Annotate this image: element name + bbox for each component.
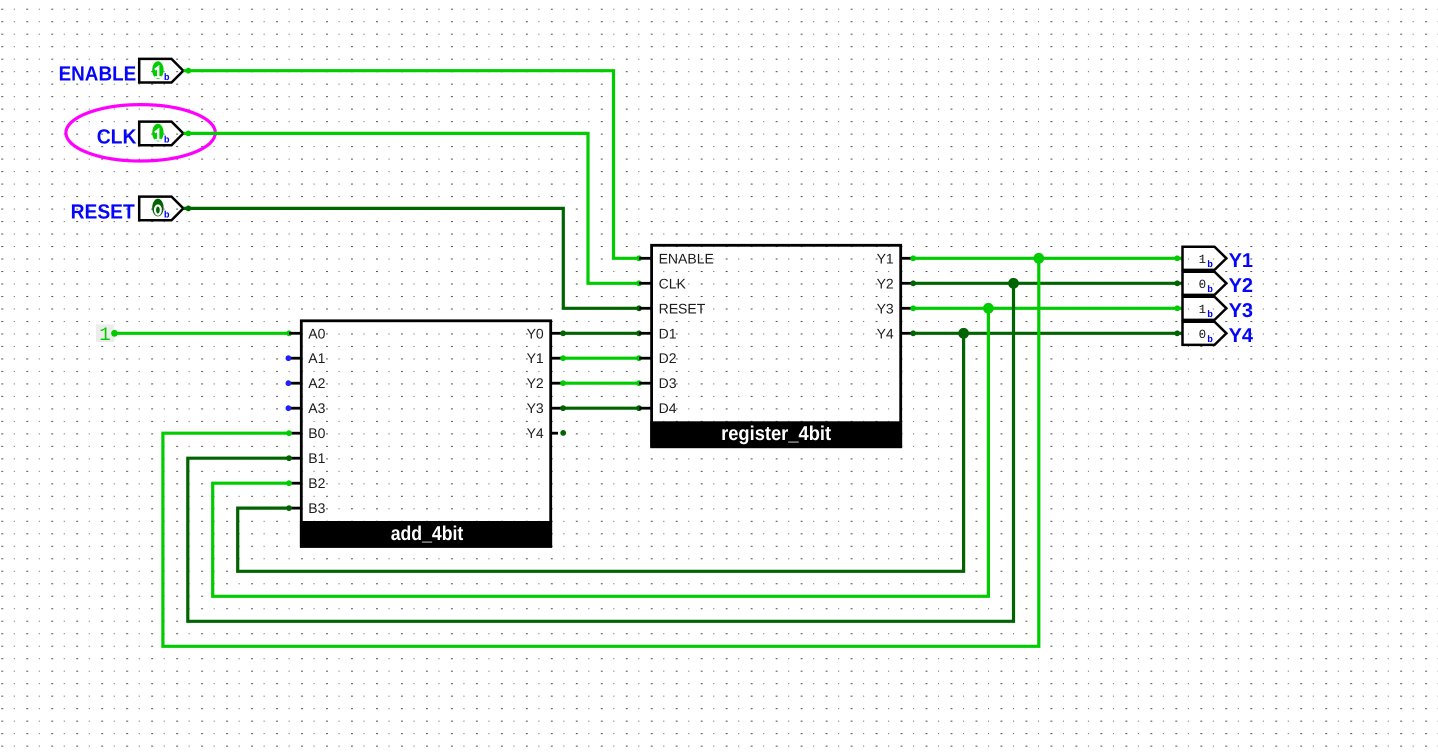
register_4bit pin names ENABLE CLK RESET D1-D4 Y1-Y4 (659, 250, 894, 416)
svg-text:Y3: Y3 (527, 400, 544, 416)
svg-text:1: 1 (1199, 253, 1207, 267)
svg-text:Y0: Y0 (527, 325, 544, 341)
svg-text:Y4: Y4 (877, 325, 894, 341)
svg-text:B3: B3 (308, 500, 325, 516)
wire net A0 (111, 330, 292, 337)
svg-text:Y2: Y2 (527, 375, 544, 391)
svg-text:Y4: Y4 (1229, 325, 1254, 347)
add_4bit pin stubs (288, 333, 563, 508)
highlight ellipse around CLK (66, 105, 215, 161)
pin A2 open dot (286, 380, 292, 386)
svg-text:b: b (164, 72, 170, 83)
wire net Y1 feedback (163, 255, 1183, 646)
svg-text:D3: D3 (659, 375, 677, 391)
wire net Y3 feedback (213, 305, 1183, 596)
svg-text:B2: B2 (308, 475, 325, 491)
svg-text:1: 1 (99, 324, 110, 346)
svg-text:A3: A3 (308, 400, 325, 416)
output port Y3 (1183, 297, 1254, 322)
svg-text:Y3: Y3 (877, 300, 894, 316)
svg-text:b: b (1207, 334, 1213, 345)
svg-text:D4: D4 (659, 400, 677, 416)
wire net CLK (184, 131, 642, 287)
junction Y2 (1008, 278, 1019, 289)
pin A1 open dot (286, 355, 292, 361)
svg-text:Y1: Y1 (877, 250, 894, 266)
svg-text:Y2: Y2 (1229, 275, 1253, 297)
output port Y1 (1183, 247, 1254, 272)
svg-text:A2: A2 (308, 375, 325, 391)
add_4bit body (301, 321, 550, 547)
register_4bit body (652, 245, 901, 446)
register_4bit pin stubs (639, 258, 913, 408)
svg-text:Y1: Y1 (527, 350, 544, 366)
svg-text:CLK: CLK (97, 125, 137, 148)
wire net RESET (184, 206, 642, 312)
svg-text:1: 1 (1199, 303, 1207, 317)
svg-text:ENABLE: ENABLE (659, 250, 714, 266)
wire net ENABLE (184, 68, 642, 261)
svg-text:A1: A1 (308, 350, 325, 366)
svg-text:b: b (164, 134, 170, 145)
svg-text:RESET: RESET (659, 300, 706, 316)
svg-text:b: b (164, 209, 170, 220)
net label 1 on A0 (96, 324, 114, 346)
add_4bit pin names A0-A3 B0-B3 Y0-Y4 (308, 325, 544, 516)
svg-text:ENABLE: ENABLE (59, 63, 137, 86)
register_4bit name band (650, 421, 902, 447)
add_4bit name band (300, 521, 552, 547)
wire Y0 to D1 (560, 330, 642, 336)
pin A3 open dot (286, 405, 292, 411)
input port ENABLE (59, 59, 184, 86)
svg-text:b: b (1207, 284, 1213, 295)
svg-text:B1: B1 (308, 450, 325, 466)
svg-text:B0: B0 (308, 425, 325, 441)
svg-text:Y2: Y2 (877, 275, 894, 291)
wire Y1 to D2 (560, 355, 642, 361)
output port Y4 (1183, 322, 1254, 347)
svg-text:CLK: CLK (659, 275, 687, 291)
component register_4bit (639, 245, 913, 446)
wire net Y4 feedback (238, 330, 1183, 571)
svg-text:RESET: RESET (71, 200, 136, 223)
wire Y3 to D4 (560, 405, 642, 411)
svg-text:A0: A0 (308, 325, 325, 341)
junction Y1 (1033, 253, 1044, 264)
svg-text:D1: D1 (659, 325, 677, 341)
input port CLK (97, 122, 184, 149)
component add_4bit (288, 321, 563, 547)
pin Y4 open dot (560, 430, 566, 436)
wire Y2 to D3 (560, 380, 642, 386)
svg-text:b: b (1207, 309, 1213, 320)
svg-text:D2: D2 (659, 350, 677, 366)
svg-text:add_4bit: add_4bit (391, 523, 464, 545)
output port Y2 (1183, 272, 1254, 297)
svg-text:Y1: Y1 (1229, 250, 1253, 272)
svg-text:0: 0 (1199, 278, 1207, 292)
svg-text:Y4: Y4 (527, 425, 544, 441)
input port RESET (71, 197, 184, 224)
svg-text:0: 0 (1199, 328, 1207, 342)
svg-text:Y3: Y3 (1229, 300, 1253, 322)
svg-text:register_4bit: register_4bit (721, 423, 831, 445)
wire net Y2 feedback (188, 280, 1183, 621)
junction Y3 (983, 303, 994, 314)
svg-text:b: b (1207, 259, 1213, 270)
junction Y4 (958, 328, 969, 339)
